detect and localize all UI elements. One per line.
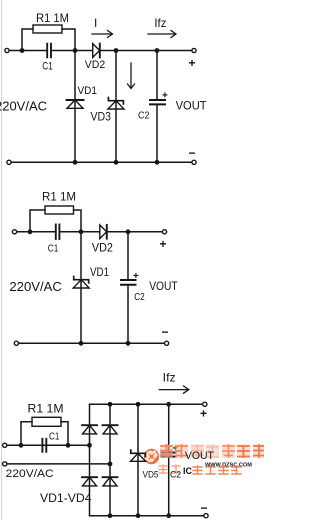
capacitor C1 (47, 44, 51, 58)
wire AC line 2 (7, 463, 110, 465)
current arrow Ifz (148, 31, 176, 38)
wire R1 loop left vertical (21, 422, 32, 446)
svg-text:C2: C2 (134, 292, 145, 303)
output terminal + top-right (192, 48, 196, 52)
capacitor C2 branch wire bottom (156, 104, 158, 162)
diode VD3 (lower-left) (82, 477, 97, 486)
scan border line left edge (1, 0, 3, 520)
wire R1 loop left vertical (30, 210, 45, 232)
node at R1/C1 left (20, 48, 25, 53)
capacitor C2 branch wire top (156, 51, 158, 101)
wire bottom rail (11, 161, 192, 163)
svg-text:VD1: VD1 (90, 267, 109, 279)
node bottom VD1 (73, 160, 78, 165)
diode VD1 (67, 100, 84, 108)
wire top rail left segment (9, 50, 46, 52)
wire bridge left branch (89, 404, 91, 515)
svg-text:VOUT: VOUT (176, 99, 208, 113)
diode VD2 (93, 44, 100, 58)
node bottom VD5 (136, 513, 141, 518)
wire R1 loop right vertical (61, 422, 68, 446)
node bridge right AC (108, 462, 113, 467)
node at R1/C1 left (28, 229, 33, 234)
wire top rail mid segment (51, 50, 93, 52)
wire top rail (90, 403, 203, 405)
svg-text:+: + (162, 91, 168, 102)
svg-text:C2: C2 (138, 110, 150, 122)
zener VD5 branch wire (137, 404, 139, 515)
diode VD4 (lower-right) (103, 477, 118, 486)
svg-text:VD1-VD4: VD1-VD4 (40, 493, 92, 505)
AC input terminal bottom-left (7, 160, 11, 164)
output terminal + top-right (203, 402, 207, 406)
current arrow Ifz (159, 386, 189, 393)
svg-text:VD5: VD5 (143, 469, 159, 480)
watermark logo circle (144, 449, 159, 464)
svg-text:C1: C1 (48, 243, 59, 255)
wire R1 loop right vertical (74, 210, 82, 232)
svg-text:VOUT: VOUT (149, 279, 178, 293)
svg-text:VD1: VD1 (78, 85, 98, 97)
resistor R1 (45, 206, 74, 214)
node bottom C2 (126, 341, 131, 346)
AC input terminal 2 (3, 462, 7, 466)
diode VD2 (upper-right) (103, 425, 118, 434)
output terminal + right (162, 230, 166, 234)
svg-text:R1 1M: R1 1M (28, 402, 64, 416)
svg-text:R1 1M: R1 1M (36, 13, 69, 25)
node top right branch (108, 402, 113, 407)
zener VD1 branch wire (80, 232, 82, 343)
output terminal - bottom-right (204, 514, 208, 518)
svg-text:VD2: VD2 (92, 243, 113, 255)
svg-text:220V/AC: 220V/AC (6, 468, 54, 480)
wire R1 loop left vertical (22, 29, 33, 51)
svg-text:+: + (200, 407, 207, 421)
svg-text:R1 1M: R1 1M (42, 192, 76, 204)
svg-text:IC: IC (183, 466, 193, 476)
zener VD3 branch wire (115, 51, 117, 163)
node bottom VD1 (79, 341, 84, 346)
wire bridge right branch (109, 404, 111, 515)
capacitor C2 branch wire bottom (168, 457, 170, 516)
node B (VD3 junction) (114, 48, 119, 53)
diode VD1 branch wire (74, 51, 76, 163)
diode VD1 (upper-left) (82, 425, 97, 434)
svg-text:−: − (189, 146, 196, 160)
AC input terminal 1 (3, 443, 7, 447)
svg-text:Ifz: Ifz (163, 371, 176, 385)
node top C2 (166, 402, 171, 407)
wire bottom rail (90, 515, 204, 517)
capacitor C2 branch wire top (168, 404, 170, 452)
capacitor C1 (56, 225, 60, 240)
output terminal - bottom-right (192, 160, 196, 164)
node bottom VD3 (114, 160, 119, 165)
capacitor C2 branch wire bottom (127, 285, 129, 344)
svg-text:+: + (160, 237, 167, 251)
wire top rail right segment (107, 231, 163, 233)
svg-text:−: − (162, 325, 169, 339)
svg-text:C1: C1 (49, 432, 60, 443)
current arrow I (92, 31, 113, 38)
wire top rail right segment (100, 50, 192, 52)
node bottom C2 (166, 513, 171, 518)
wire R1 loop right vertical (62, 29, 75, 51)
node loop right (66, 443, 71, 448)
resistor R1 (33, 25, 62, 33)
wire top rail left segment (17, 231, 56, 233)
svg-text:I: I (94, 16, 97, 30)
current down-arrow (128, 63, 135, 89)
wire bottom rail (19, 342, 165, 344)
svg-text:220V/AC: 220V/AC (0, 100, 47, 114)
zener diode VD3 (108, 98, 124, 110)
node bridge left AC (87, 443, 92, 448)
wire top rail mid segment (59, 231, 99, 233)
svg-text:+: + (189, 56, 196, 70)
diode VD2 (100, 225, 107, 239)
svg-text:VD2: VD2 (85, 59, 106, 71)
svg-text:−: − (201, 501, 208, 515)
capacitor C2 (electrolytic) (162, 453, 176, 457)
node loop left (19, 443, 24, 448)
capacitor C2 (electrolytic) (121, 280, 136, 285)
node bottom right branch (108, 513, 113, 518)
output terminal - bottom-right (165, 341, 169, 345)
svg-text:+: + (133, 271, 139, 282)
node A (C1/R1/VD1/VD2 junction) (73, 48, 78, 53)
node B (C2 junction) (126, 229, 131, 234)
watermark text line 2 (CJK mimic glyph boxes) (159, 465, 180, 473)
svg-text:220V/AC: 220V/AC (9, 280, 62, 294)
capacitor C2 branch wire top (127, 232, 129, 280)
AC input terminal top-left (5, 48, 9, 52)
AC input terminal bottom-left (14, 341, 18, 345)
svg-text:C1: C1 (42, 61, 53, 73)
zener diode VD5 (131, 450, 146, 461)
watermark text line 1 (CJK mimic glyph boxes) (160, 445, 264, 459)
svg-text:VD3: VD3 (91, 112, 112, 124)
AC input terminal top-left (12, 230, 16, 234)
zener diode VD1 (73, 277, 89, 289)
capacitor C1 (42, 439, 46, 452)
wire AC line 1 (7, 444, 90, 446)
svg-text:Ifz: Ifz (154, 16, 166, 30)
svg-text:VOUT: VOUT (185, 450, 214, 462)
capacitor C2 (electrolytic) (150, 100, 165, 104)
svg-text:C2: C2 (170, 469, 181, 480)
resistor R1 (32, 417, 61, 426)
node bottom C2 (155, 160, 160, 165)
node top VD5 (136, 402, 141, 407)
node A (C1/R1/VD1/VD2 junction) (79, 229, 84, 234)
node C (C2 junction) (155, 48, 160, 53)
